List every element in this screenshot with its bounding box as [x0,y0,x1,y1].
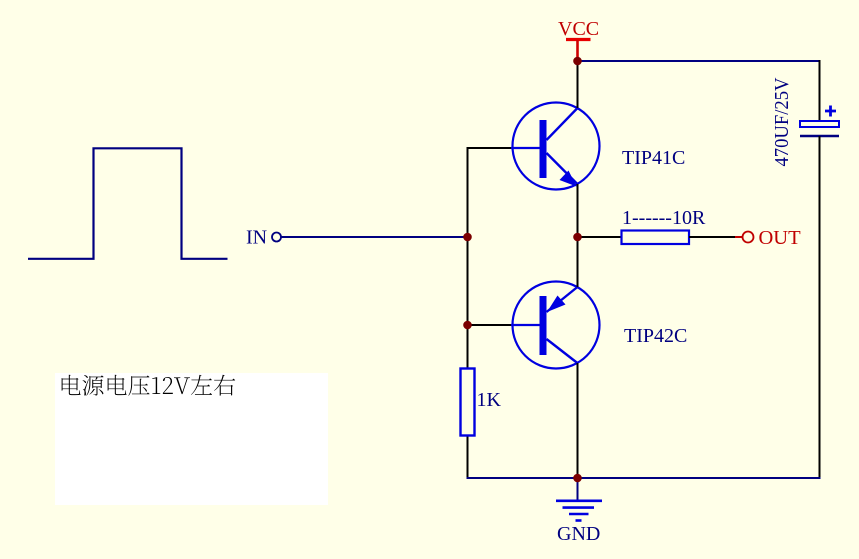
wire resistor to OUT stub [689,236,735,238]
svg-text:TIP41C: TIP41C [622,147,685,169]
transistor Q2 collector line [547,339,579,364]
transistor Q1 collector line [547,108,579,141]
junction GND node [573,474,582,483]
note text 电源电压12V左右 [62,375,236,396]
port OUT stub [735,236,743,238]
wire capacitor top lead [819,60,821,121]
transistor Q1 emitter arrow [560,171,577,187]
transistor Q1 TIP41C circle [513,103,600,190]
junction Q2 base node [463,321,472,330]
wire OUT junction to resistor [578,236,622,238]
svg-text:1K: 1K [477,389,502,411]
ground bar 4 [576,519,582,522]
junction VCC node [573,57,582,66]
resistor 1K body [461,369,475,436]
ground bar 2 [563,506,595,509]
svg-text:IN: IN [246,227,267,249]
transistor Q1 base line [511,147,540,149]
transistor Q2 TIP42C circle [513,282,600,369]
transistor Q2 base bar [540,296,547,355]
power port VCC stem [576,40,579,60]
port OUT terminal circle [743,232,754,243]
svg-text:VCC: VCC [558,18,599,40]
svg-text:GND: GND [557,523,600,545]
wire Q2 base lead [468,324,513,326]
note box [55,373,328,505]
ground bar 3 [569,513,589,516]
wire IN to left bus [282,236,467,238]
wire Q1 emitter pin [577,184,579,238]
junction IN node [463,233,472,242]
transistor Q2 emitter line [547,287,579,313]
power port VCC bar [566,38,591,41]
transistor Q1 base bar [540,120,547,178]
svg-text:TIP42C: TIP42C [624,325,687,347]
transistor Q2 base line [511,324,540,326]
wire Q2 collector pin [577,363,579,479]
wire Q1 base lead [467,147,513,149]
wire capacitor bottom lead [819,136,821,479]
wire top rail to capacitor [578,60,820,62]
transistor Q2 emitter arrow [547,296,566,313]
wire Q1 collector pin [577,61,579,108]
svg-text:1------10R: 1------10R [622,207,706,229]
capacitor C1 negative plate [800,135,839,138]
ground bar 1 [556,499,602,502]
wire Q2 emitter pin [577,236,579,287]
wire bottom rail [467,477,821,479]
capacitor C1 positive plate [800,121,839,127]
input pulse waveform [28,148,228,258]
svg-text:470UF/25V: 470UF/25V [771,77,793,166]
junction OUT node [573,233,582,242]
capacitor C1 plus sign [825,106,836,117]
svg-text:OUT: OUT [759,227,802,249]
ground stub [577,478,579,501]
wire left bus vertical upper [467,147,469,369]
wire left bus vertical lower [467,436,469,480]
transistor Q1 emitter line [547,153,578,185]
port IN terminal circle [272,233,281,242]
